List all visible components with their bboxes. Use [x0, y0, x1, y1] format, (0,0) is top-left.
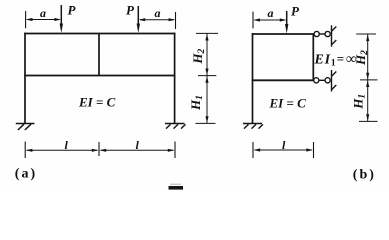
wire top beam b	[252, 33, 314, 35]
svg-text:1: 1	[331, 59, 336, 69]
svg-text:H1: H1	[188, 95, 205, 111]
dimension a right: line with arrows	[139, 18, 176, 21]
svg-text:EI = C: EI = C	[269, 96, 307, 111]
hinge circle top-2 (b)	[325, 31, 330, 36]
svg-text:a: a	[155, 6, 161, 20]
dimension l (frame b): line with arrows	[254, 148, 313, 151]
ground fixed support a-left	[16, 124, 35, 131]
wire left column a	[24, 33, 26, 123]
hinge circle top-1 (b)	[314, 31, 319, 36]
dimension l (frame a): ticks	[25, 142, 175, 159]
load P3 arrow	[285, 11, 288, 34]
dimension H line (frame b)	[356, 34, 377, 121]
svg-text:EI = C: EI = C	[78, 94, 116, 109]
ground fixed support a-right	[165, 124, 186, 129]
svg-text:P: P	[291, 4, 300, 19]
svg-text:a: a	[40, 6, 46, 20]
wall support mid (b)	[332, 70, 337, 92]
svg-text:(b): (b)	[353, 168, 376, 183]
dimension a left: line with arrows	[26, 18, 61, 21]
load P2 arrow	[137, 6, 140, 33]
artifact black bar bottom center	[169, 186, 184, 190]
dimension a (b): tick	[252, 12, 254, 29]
artifact faint smudge above bar	[170, 184, 181, 185]
link bar mid (b)	[319, 79, 325, 81]
wire left column b	[252, 33, 254, 123]
svg-text:P: P	[68, 3, 77, 18]
wire top beam a	[24, 33, 175, 35]
wire middle beam b	[252, 79, 314, 81]
dimension a right: tick	[175, 12, 177, 29]
wall support top (b)	[332, 25, 337, 46]
svg-text:H1: H1	[350, 94, 367, 110]
svg-text:a: a	[268, 6, 274, 20]
dimension H line (frame a)	[196, 33, 219, 123]
svg-text:=: =	[337, 51, 344, 66]
wire middle column a	[98, 34, 100, 76]
dimension l (frame a): lines with arrows	[26, 149, 175, 152]
dimension a left: tick	[25, 11, 27, 28]
svg-text:P: P	[126, 3, 135, 18]
hinge circle mid-2 (b)	[325, 78, 330, 83]
dimension a (b): line with arrows	[253, 18, 286, 21]
link bar top (b)	[319, 33, 325, 35]
dimension l (frame b): ticks	[253, 142, 314, 158]
wire right column b	[312, 34, 314, 80]
svg-text:H2: H2	[190, 49, 207, 65]
svg-text:(a): (a)	[15, 167, 37, 182]
hinge circle mid-1 (b)	[314, 78, 319, 83]
ground fixed support b	[243, 124, 263, 129]
wire middle beam a	[24, 75, 175, 77]
load P1 arrow	[60, 5, 63, 33]
svg-text:EI: EI	[314, 52, 331, 67]
wire right column a	[174, 33, 176, 123]
label EI1 = infinity (b)	[314, 51, 358, 69]
